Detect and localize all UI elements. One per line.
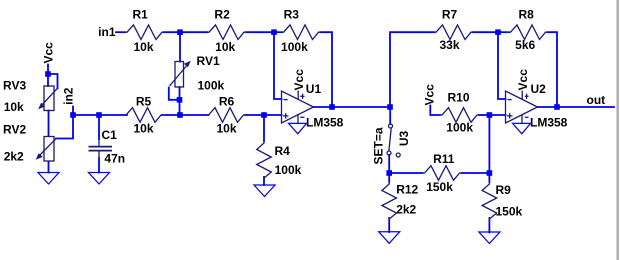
junction C1 tap [96,112,102,118]
svg-text:U3: U3 [397,131,411,147]
wire RV2 bottom to ground [48,162,50,173]
wire junction D to R11 [389,172,422,174]
svg-text:100k: 100k [446,120,473,134]
svg-text:RV2: RV2 [3,122,26,136]
resistor R12 (vertical) [382,181,397,222]
svg-text:10k: 10k [133,40,153,54]
potentiometer RV3 body [44,86,54,111]
wire R10 to junction E column [479,114,489,116]
svg-text:U1: U1 [306,82,322,96]
resistor R1 [124,25,165,40]
resistor R10 [439,108,480,123]
op-amp U1 V- power pin [297,115,299,124]
switch U3 [387,124,400,157]
svg-text:150k: 150k [496,205,523,219]
wire in2 terminal stub [72,107,74,116]
svg-text:5k6: 5k6 [515,38,535,52]
wire mid junction down to switch U3 [389,107,391,124]
svg-text:in1: in1 [98,25,116,39]
wire Vcc terminal stub to R10 [430,106,440,116]
wire C1 bottom to ground [98,158,100,173]
svg-text:Vcc: Vcc [516,69,530,91]
svg-text:Vcc: Vcc [423,84,437,106]
junction RV1 column row2 [177,112,183,118]
op-amp U1 V- arrow terminal [289,123,307,133]
wire R5 to RV1 column junction [162,114,209,116]
potentiometer RV2 wiper arrow [36,139,56,160]
svg-text:R10: R10 [448,91,470,105]
junction R10/U2 plus [487,112,493,118]
svg-text:C1: C1 [102,128,118,142]
resistor R2 [206,25,247,40]
svg-text:Vcc: Vcc [292,69,306,91]
wire junction C down to U2 inverting input [498,32,506,99]
potentiometer RV1 body [175,62,184,88]
ground under R9 [479,232,500,244]
wire junction B to R3 [274,31,282,33]
svg-text:150k: 150k [426,180,453,194]
wire RV3 top pin [47,74,49,86]
wire C1 top [98,115,100,139]
wire Vcc terminal stub above RV3 [47,65,49,75]
svg-text:R8: R8 [519,8,535,22]
svg-text:100k: 100k [281,40,308,54]
op-amp U2 V- power pin [521,115,523,124]
svg-text:R1: R1 [133,8,149,22]
svg-text:47n: 47n [104,151,125,165]
svg-text:RV3: RV3 [3,78,26,92]
wire RV1 bottom pin through wiper node to row2 [179,87,181,115]
svg-text:100k: 100k [275,163,302,177]
wire RV1 wiper loop [169,88,180,100]
scrollbar band right edge [616,0,619,260]
junction A (R1/R2/RV1) [177,29,183,35]
svg-text:R6: R6 [219,95,235,109]
junction C (R7/R8/U2 inv) [495,29,501,35]
wire R4 bottom to ground [263,177,265,185]
wire R2 to junction B [246,31,274,33]
svg-text:in2: in2 [62,87,76,105]
wire junction E down to R9 [488,173,490,182]
resistor R4 (vertical) [257,140,272,181]
wire junction B down to U1 inverting input [274,32,282,99]
resistor R8 [508,25,549,40]
svg-text:R5: R5 [136,95,152,109]
junction E (R11/R9/U2 plus column) [487,170,493,176]
potentiometer RV2 body [44,137,54,162]
junction D (switch/R11/R12) [386,170,392,176]
wire junction C to R8 [498,31,509,33]
wire RV3 bottom to RV2 top [48,111,50,137]
wire junction A down to RV1 top [179,32,181,61]
wire junction A to R2 [180,31,207,33]
junction B (R2/R3/U1 inv) [271,29,277,35]
svg-text:100k: 100k [198,79,225,93]
wire junction E up to U2 non-inverting input [489,115,505,173]
ground under C1 [89,173,110,185]
wire R9 bottom to ground [488,218,490,233]
svg-text:R9: R9 [496,183,512,197]
resistor R7 [433,25,474,40]
wire R8 to right feedback corner [548,32,558,107]
junction RV1 wiper node [177,97,183,103]
resistor R5 [123,108,164,123]
svg-text:LM358: LM358 [306,116,344,130]
svg-text:2k2: 2k2 [396,202,416,216]
resistor R11 [422,166,463,181]
capacitor C1 [89,138,113,159]
ground under RV2 [38,173,59,185]
resistor R9 (vertical) [482,181,497,222]
wire R3 to feedback corner [321,32,333,107]
wire RV3 wiper loop to Vcc node [48,74,58,89]
resistor R6 [206,108,247,123]
svg-text:10k: 10k [215,40,235,54]
junction R6/R4/U1 plus [261,112,267,118]
potentiometer RV3 wiper arrow [38,89,57,110]
resistor R3 [281,25,322,40]
svg-text:R2: R2 [214,8,230,22]
wire R7 to junction C [473,31,498,33]
wire R11 to junction E [462,172,490,174]
wire mid junction up and right to R7 [390,32,434,107]
svg-text:10k: 10k [133,121,153,135]
junction U1 output feedback [329,104,335,110]
junction mid node [387,104,393,110]
wire junction D down to R12 [388,173,390,182]
wire switch U3 to junction D [388,155,390,173]
junction R8 output feedback [554,104,560,110]
svg-text:R4: R4 [275,144,291,158]
svg-text:R3: R3 [284,8,300,22]
wire out lead [557,106,614,108]
op-amp U2 [506,91,538,123]
op-amp U1 [282,91,314,123]
svg-text:R12: R12 [396,182,418,196]
wire in1 to R1 [116,31,125,33]
svg-text:LM358: LM358 [530,116,568,130]
junction Vcc node above RV3 [45,71,51,77]
op-amp U2 V+ power pin [521,91,523,100]
svg-text:R7: R7 [442,8,458,22]
wire R12 bottom to ground [388,218,390,232]
potentiometer RV1 wiper arrow [170,61,191,86]
junction in2 node [70,112,76,118]
svg-text:SET=a: SET=a [372,127,386,164]
op-amp U2 V- arrow terminal [513,123,531,133]
svg-text:R11: R11 [433,152,455,166]
wire R6 to U1 non-inverting input [245,114,282,116]
svg-text:Vcc: Vcc [41,42,55,64]
ground under R4 [254,185,275,197]
ground under R12 [379,232,400,244]
svg-text:out: out [587,93,606,107]
svg-text:33k: 33k [439,38,459,52]
wire in2 node down to RV2 wiper [56,115,73,139]
svg-text:10k: 10k [216,121,236,135]
op-amp U1 V+ power pin [297,91,299,100]
wire R6 junction down to R4 [263,115,265,141]
wire U2 output to out junction [538,106,558,108]
svg-text:RV1: RV1 [197,54,220,68]
svg-text:U2: U2 [531,82,547,96]
svg-text:10k: 10k [4,100,24,114]
wire node in2 to R5 [73,114,127,116]
wire U1 output to mid junction [314,106,391,108]
svg-text:2k2: 2k2 [4,150,24,164]
wire R1 to junction A [164,31,180,33]
